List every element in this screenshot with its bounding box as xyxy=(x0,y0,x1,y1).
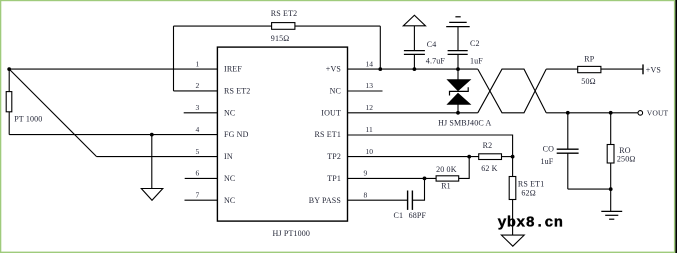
wire RS ET1 bottom lead to ground xyxy=(512,200,514,236)
capacitor CO 1uF xyxy=(557,113,611,189)
node TP1/C1 junction xyxy=(423,177,427,181)
svg-text:C4: C4 xyxy=(427,40,437,49)
TVS diode HJ SMBJ40CA xyxy=(438,69,491,127)
wire RP to +VS terminal xyxy=(601,68,643,70)
node A junction xyxy=(7,67,11,71)
pin 7 label NC xyxy=(196,191,236,205)
wire pin 2 RS ET2 xyxy=(174,90,218,92)
svg-text:PT 1000: PT 1000 xyxy=(14,115,42,124)
node TVS bottom junction xyxy=(456,111,460,115)
pin 2 label RS ET2 xyxy=(196,81,251,95)
node C4 junction xyxy=(413,67,417,71)
wire RS ET1 top lead xyxy=(512,157,514,177)
svg-text:+VS: +VS xyxy=(646,65,661,74)
resistor RS ET2 915 ohm xyxy=(271,9,297,43)
pin 11 label RS ET1 xyxy=(315,125,373,139)
resistor RO 250 ohm xyxy=(607,113,635,189)
svg-text:2: 2 xyxy=(196,81,200,90)
svg-text:8: 8 xyxy=(364,191,368,200)
node R2/RS ET1 junction xyxy=(511,155,515,159)
svg-text:RS ET1: RS ET1 xyxy=(518,179,544,188)
wire +VS rail to RP xyxy=(546,68,578,70)
svg-text:915Ω: 915Ω xyxy=(271,34,290,43)
svg-text:RP: RP xyxy=(584,55,594,64)
wire vertical to top resistor xyxy=(173,26,175,91)
svg-text:C2: C2 xyxy=(470,39,480,48)
terminal VOUT xyxy=(638,109,669,118)
wire pin 14 +VS rail xyxy=(348,68,478,70)
svg-text:R1: R1 xyxy=(441,182,451,191)
svg-text:12: 12 xyxy=(366,103,374,112)
wire PT1000 bottom lead xyxy=(8,112,10,135)
wire pin 7 NC stub xyxy=(185,199,218,201)
wire pin 11 RS ET1 xyxy=(348,135,513,157)
terminal +VS xyxy=(643,64,661,74)
pin 8 label BY PASS xyxy=(309,191,368,205)
wire pin 4 FGND rail xyxy=(9,134,217,136)
pin 12 label IOUT xyxy=(321,103,373,117)
node FGND ground junction xyxy=(150,133,154,137)
svg-text:HJ PT1000: HJ PT1000 xyxy=(273,229,311,238)
resistor RS ET1 62 ohm xyxy=(509,177,544,200)
svg-text:250Ω: 250Ω xyxy=(617,154,636,163)
wire top RS ET2 feedback xyxy=(174,25,381,27)
capacitor C1 68PF xyxy=(394,191,427,221)
resistor PT1000 xyxy=(6,92,42,124)
pin 4 label FG ND xyxy=(196,125,249,139)
pin 10 label TP2 xyxy=(327,147,373,161)
svg-text:RS ET1: RS ET1 xyxy=(315,130,341,139)
svg-text:HJ SMBJ40C A: HJ SMBJ40C A xyxy=(438,118,491,127)
pin 5 label IN xyxy=(196,147,233,161)
wire pin 10 TP2 xyxy=(348,156,479,158)
svg-text:1: 1 xyxy=(196,59,200,68)
ground (earth) below RO xyxy=(601,189,622,219)
svg-text:RS ET2: RS ET2 xyxy=(271,9,297,18)
svg-text:7: 7 xyxy=(196,191,200,200)
svg-text:IREF: IREF xyxy=(224,65,242,74)
svg-text:NC: NC xyxy=(330,87,341,96)
svg-text:3: 3 xyxy=(196,103,200,112)
svg-text:6: 6 xyxy=(196,169,200,178)
wire R2 right lead xyxy=(502,156,513,158)
resistor RP 50 ohm xyxy=(578,55,601,87)
pin 14 label +VS xyxy=(326,59,373,73)
svg-text:50Ω: 50Ω xyxy=(581,77,595,86)
svg-text:BY PASS: BY PASS xyxy=(309,196,341,205)
svg-text:4: 4 xyxy=(196,125,200,134)
node TP2/R2 junction xyxy=(467,155,471,159)
power +VS arrow above C4 xyxy=(403,15,425,50)
svg-text:1uF: 1uF xyxy=(541,157,554,166)
wire pin 13 NC stub xyxy=(348,90,383,92)
svg-text:VOUT: VOUT xyxy=(647,109,669,118)
wire VOUT line xyxy=(546,112,638,114)
op-amp U1 HJ PT1000 (IC body) xyxy=(217,47,347,238)
svg-text:FG ND: FG ND xyxy=(224,130,249,139)
svg-text:RS ET2: RS ET2 xyxy=(224,87,250,96)
wire pin 9 TP1 xyxy=(348,177,437,179)
ground (arrow) at FGND xyxy=(141,189,163,201)
wire ground drop from FGND rail xyxy=(151,135,153,189)
svg-text:R2: R2 xyxy=(483,141,493,150)
wire RS ET2 drop to +VS rail xyxy=(379,26,381,69)
capacitor C4 4.7uF xyxy=(404,51,425,70)
svg-text:13: 13 xyxy=(366,81,374,90)
svg-text:C1: C1 xyxy=(394,211,404,220)
svg-text:CO: CO xyxy=(543,144,554,153)
wire node A to pin 1 IREF xyxy=(9,68,217,70)
node RS ET2 / +VS rail junction xyxy=(378,67,382,71)
svg-text:NC: NC xyxy=(224,174,235,183)
svg-text:5: 5 xyxy=(196,147,200,156)
resistor R2 62K xyxy=(479,141,502,173)
wire to pin 5 IN xyxy=(97,156,218,158)
svg-text:11: 11 xyxy=(366,125,373,134)
wire CO bottom to RO bottom xyxy=(568,188,611,190)
pin 13 label NC xyxy=(330,81,374,95)
svg-text:1uF: 1uF xyxy=(470,56,483,65)
svg-text:10: 10 xyxy=(366,147,374,156)
wire pin 3 NC stub xyxy=(184,112,218,114)
svg-text:IN: IN xyxy=(224,152,233,161)
svg-text:TP1: TP1 xyxy=(327,174,341,183)
node CO top junction xyxy=(566,111,570,115)
wire pin 8 BYPASS xyxy=(348,199,408,201)
wire pin 6 NC stub xyxy=(185,177,218,179)
wire C1 right lead up to TP1 node xyxy=(413,178,425,200)
ground (earth) above C2 xyxy=(446,17,470,51)
pin 3 label NC xyxy=(196,103,236,117)
node RO bottom junction xyxy=(609,187,613,191)
pin 9 label TP1 xyxy=(327,169,367,183)
svg-text:62 K: 62 K xyxy=(481,164,497,173)
svg-text:NC: NC xyxy=(224,196,235,205)
svg-text:+VS: +VS xyxy=(326,65,341,74)
svg-text:NC: NC xyxy=(224,108,235,117)
wire pin 12 IOUT xyxy=(348,112,478,114)
svg-text:4.7uF: 4.7uF xyxy=(426,56,446,65)
wire R1 right lead up to TP2 node xyxy=(459,157,470,179)
pin 6 label NC xyxy=(196,169,236,183)
svg-text:9: 9 xyxy=(364,169,368,178)
resistor R1 200K xyxy=(436,165,459,191)
ground (arrow) below RS ET1 xyxy=(501,235,524,246)
svg-text:62Ω: 62Ω xyxy=(521,189,535,198)
svg-text:20 0K: 20 0K xyxy=(436,165,457,174)
svg-text:TP2: TP2 xyxy=(327,152,341,161)
wire twisted pair crossover xyxy=(478,69,643,113)
node RO top junction xyxy=(609,111,613,115)
wire node A diagonal to IN xyxy=(9,69,96,157)
pin 1 label IREF xyxy=(196,59,243,73)
wire PT1000 top lead xyxy=(8,69,10,92)
capacitor C2 1uF xyxy=(448,51,468,70)
node C2/TVS top junction xyxy=(456,67,460,71)
svg-text:IOUT: IOUT xyxy=(321,108,341,117)
svg-text:ybx8.cn: ybx8.cn xyxy=(498,215,564,232)
svg-text:14: 14 xyxy=(366,59,374,68)
svg-text:68PF: 68PF xyxy=(409,211,427,220)
